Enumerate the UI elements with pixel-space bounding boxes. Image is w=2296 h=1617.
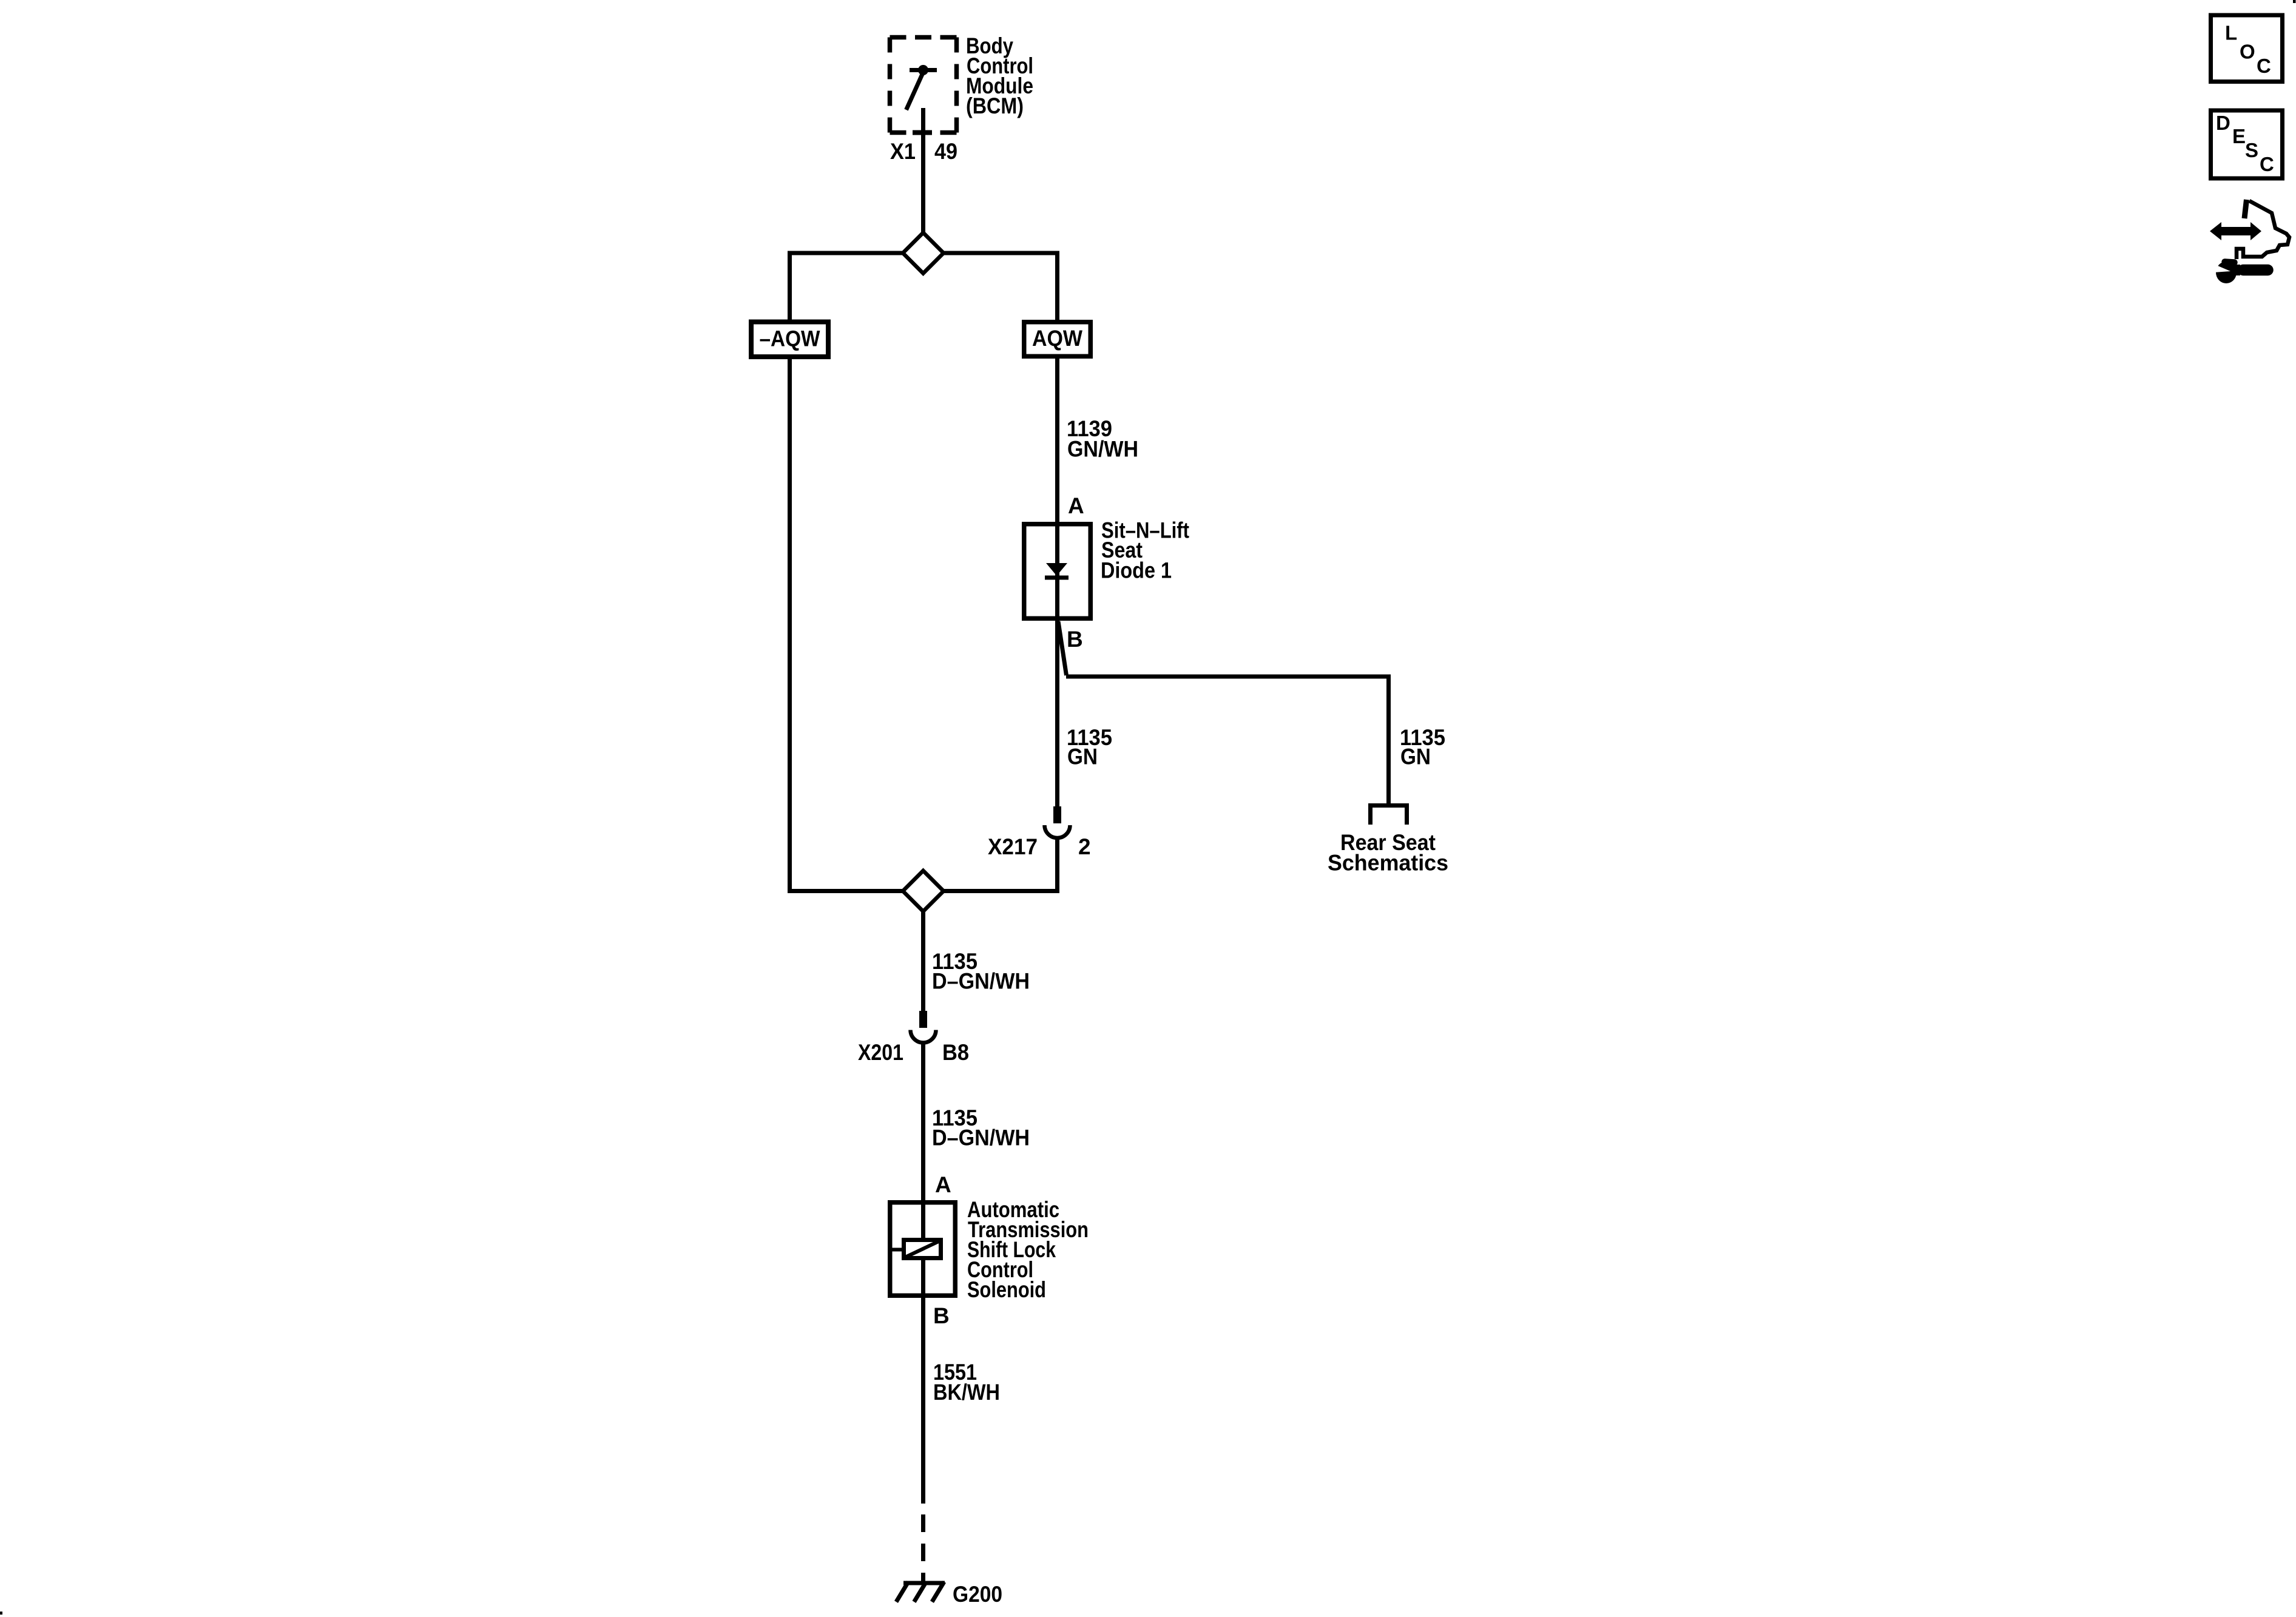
svg-text:X201: X201	[858, 1040, 903, 1065]
svg-text:(BCM): (BCM)	[966, 93, 1024, 118]
wire: below X201 through solenoid to dashed ground lead	[921, 1042, 925, 1504]
icon: DESC box	[2211, 110, 2283, 178]
diode symbol (anode triangle + cathode bar)	[1045, 563, 1069, 580]
solenoid L1 Automatic Transmission Shift Lock Control Solenoid box	[890, 1203, 956, 1296]
svg-text:A: A	[935, 1172, 951, 1197]
wire: junction S2 down to X201	[921, 891, 925, 1011]
connector X217 pin 2: male terminal	[1053, 806, 1061, 823]
svg-text:X1: X1	[890, 139, 916, 164]
icon: harness/connector service icon with double arrow and wrench	[2210, 200, 2289, 283]
label box AQW	[1024, 322, 1091, 357]
wire: right branch vertical through AQW and diode to X217	[1055, 251, 1059, 807]
svg-text:E: E	[2232, 125, 2246, 147]
svg-text:D–GN/WH: D–GN/WH	[932, 969, 1030, 994]
wire: dashed lead to G200	[921, 1514, 925, 1585]
wire: BCM pin 49 down to junction S1	[921, 109, 925, 236]
solenoid coil symbol	[890, 1240, 941, 1258]
module U1 Body Control Module (BCM) dashed box	[890, 38, 957, 133]
wire: top horizontal bus between -AQW and AQW branches	[790, 251, 1058, 255]
svg-text:B8: B8	[942, 1040, 969, 1065]
stray printing dot top-right	[2293, 0, 2296, 3]
svg-text:Solenoid: Solenoid	[967, 1277, 1046, 1302]
node S2: splice diamond (bottom)	[903, 871, 944, 911]
wire: vertical drop to Rear Seat off-page symbol	[1386, 675, 1391, 805]
svg-text:B: B	[1067, 627, 1083, 652]
connector X217 pin 2: female cup	[1045, 825, 1070, 838]
pin tick at BCM connector X1 pin 49	[913, 130, 932, 135]
svg-text:–AQW: –AQW	[760, 326, 820, 351]
svg-text:S: S	[2245, 139, 2258, 161]
svg-text:GN: GN	[1400, 744, 1431, 769]
label box -AQW	[751, 322, 828, 357]
svg-text:O: O	[2240, 41, 2255, 63]
connector X201 pin B8: male terminal	[919, 1011, 927, 1028]
svg-text:C: C	[2260, 153, 2274, 175]
wire: below X217 down then lower horizontal bus	[1055, 837, 1059, 893]
svg-text:49: 49	[934, 139, 957, 164]
icon: LOC box	[2211, 15, 2283, 82]
wire: diagonal from diode pin B to rear-seat feed	[1058, 621, 1067, 675]
svg-text:C: C	[2257, 55, 2271, 77]
connector X201 pin B8: female cup	[911, 1030, 936, 1043]
svg-text:A: A	[1068, 493, 1084, 518]
wire: left branch vertical through -AQW down to lower bus	[788, 251, 792, 894]
node S1: splice diamond (top)	[903, 233, 944, 274]
svg-text:2: 2	[1078, 834, 1091, 859]
ground G200 symbol	[896, 1582, 945, 1602]
diode D1 Sit-N-Lift Seat Diode 1 box	[1024, 524, 1091, 619]
svg-text:Schematics: Schematics	[1328, 851, 1448, 876]
svg-text:G200: G200	[953, 1582, 1002, 1607]
svg-text:BK/WH: BK/WH	[933, 1380, 1000, 1405]
svg-text:D–GN/WH: D–GN/WH	[932, 1126, 1030, 1150]
svg-text:GN/WH: GN/WH	[1067, 437, 1138, 462]
switch inside BCM	[907, 65, 937, 135]
svg-text:D: D	[2216, 112, 2230, 134]
svg-text:L: L	[2225, 22, 2237, 44]
svg-text:GN: GN	[1067, 744, 1098, 769]
stray printing dot bottom-left	[0, 1612, 2, 1615]
svg-text:X217: X217	[988, 834, 1038, 859]
wire: horizontal feed to Rear Seat Schematics	[1066, 675, 1389, 679]
svg-text:Diode 1: Diode 1	[1101, 558, 1172, 583]
off-page connector to Rear Seat Schematics	[1368, 803, 1409, 825]
svg-text:B: B	[933, 1303, 950, 1328]
svg-text:AQW: AQW	[1032, 326, 1082, 351]
